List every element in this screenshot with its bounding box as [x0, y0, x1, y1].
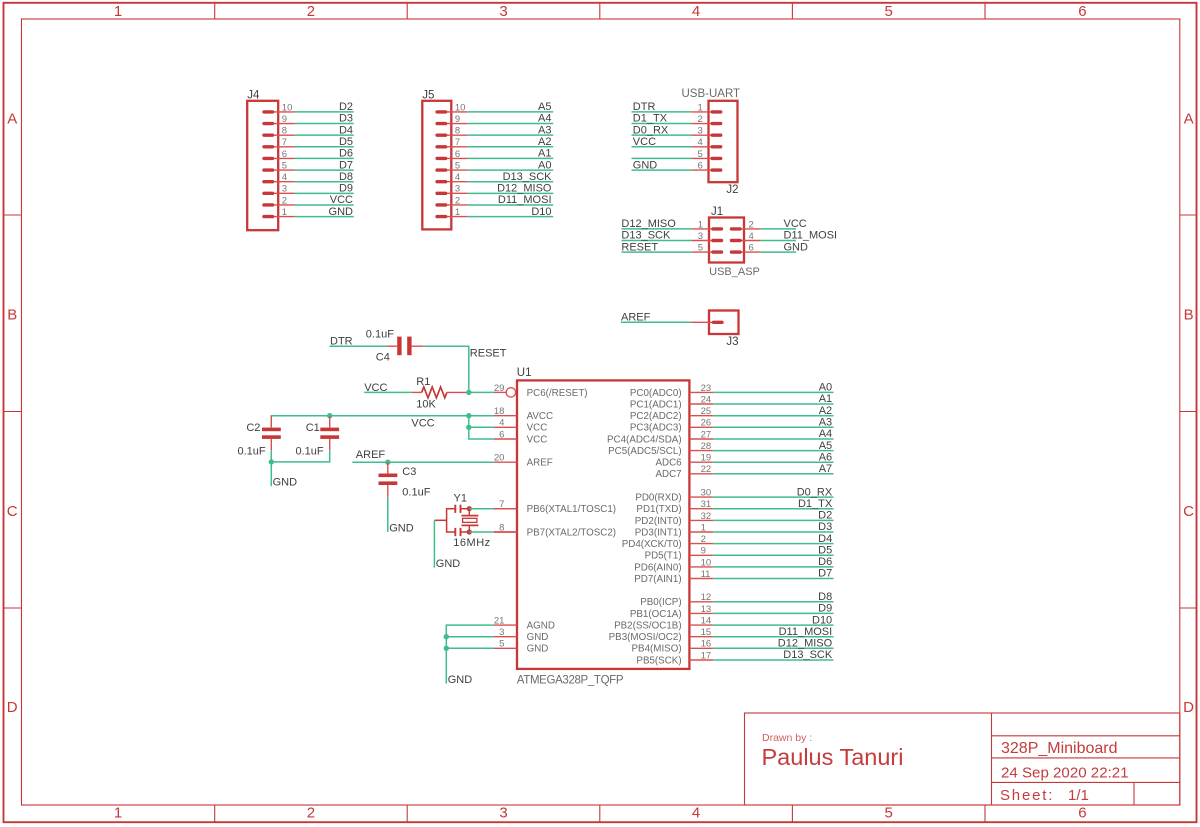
svg-text:GND: GND	[436, 558, 461, 570]
svg-text:GND: GND	[527, 632, 549, 643]
svg-text:5: 5	[499, 639, 504, 650]
wire U1 pin 10 to D6	[713, 566, 833, 568]
U1 pin 12 stub	[689, 601, 713, 603]
svg-text:1: 1	[455, 207, 460, 218]
svg-text:19: 19	[701, 453, 712, 464]
J5 pin 7 stub	[437, 146, 468, 148]
svg-text:6: 6	[1078, 805, 1086, 822]
svg-text:1/1: 1/1	[1068, 787, 1089, 804]
wire D13_SCK	[468, 181, 554, 183]
J2 pin 6 stub	[692, 169, 721, 171]
svg-text:29: 29	[494, 383, 505, 394]
svg-text:GND: GND	[784, 241, 809, 253]
svg-text:2: 2	[455, 195, 460, 206]
svg-text:Paulus Tanuri: Paulus Tanuri	[762, 744, 904, 770]
wire J1 pin 1 D12_MISO	[621, 228, 691, 230]
wire J1 pin 2 VCC	[761, 228, 797, 230]
svg-text:A2: A2	[538, 136, 551, 148]
svg-text:U1: U1	[517, 367, 532, 379]
svg-text:PB7(XTAL2/TOSC2): PB7(XTAL2/TOSC2)	[527, 527, 616, 538]
svg-text:5: 5	[282, 160, 287, 171]
svg-text:17: 17	[701, 650, 712, 661]
U1 pin 31 stub	[689, 508, 713, 510]
U1 pin 6 stub	[494, 438, 517, 440]
J4 pin 10 stub	[264, 111, 295, 113]
wire U1 pin 2 to D4	[713, 543, 833, 545]
wire U1 pin 27 to A4	[713, 438, 833, 440]
svg-text:A: A	[7, 110, 17, 127]
wire J1 pin 6 GND	[761, 251, 797, 253]
svg-text:D: D	[7, 699, 18, 716]
J4 pin 7 stub	[264, 146, 295, 148]
wire C3 to GND	[387, 497, 389, 532]
wire U1 pin 22 to A7	[713, 473, 833, 475]
title block outline	[745, 713, 1180, 805]
svg-text:2: 2	[307, 3, 315, 20]
J4 pin 8 stub	[264, 134, 295, 136]
svg-text:12: 12	[701, 592, 712, 603]
svg-text:D13_SCK: D13_SCK	[621, 230, 671, 242]
J5 pin 1 stub	[437, 216, 468, 218]
resonator Y1 crystal	[468, 509, 470, 516]
junction GND pin3	[444, 634, 449, 639]
wire A4	[468, 123, 554, 125]
svg-text:Drawn by :: Drawn by :	[762, 732, 812, 744]
capacitor C3 plates	[379, 474, 398, 478]
svg-text:A4: A4	[538, 113, 551, 125]
frame column ticks bottom	[215, 805, 985, 822]
svg-text:C: C	[7, 503, 18, 520]
svg-text:D11_MOSI: D11_MOSI	[779, 626, 833, 638]
svg-text:5: 5	[698, 149, 703, 160]
junction VCC pin4	[466, 425, 471, 430]
wire D9	[295, 192, 354, 194]
svg-text:10K: 10K	[416, 399, 436, 411]
U1 pin 7 stub	[494, 508, 517, 510]
wire U1 pin 30 to D0_RX	[713, 496, 833, 498]
J1 pin 5 stub	[692, 251, 722, 253]
svg-text:J2: J2	[726, 184, 738, 196]
U1 pin 21 stub	[494, 624, 517, 626]
svg-text:5: 5	[885, 805, 893, 822]
svg-text:J4: J4	[247, 89, 260, 101]
svg-text:D13_SCK: D13_SCK	[783, 649, 833, 661]
svg-text:R1: R1	[416, 376, 430, 388]
node XTAL1 junction	[467, 506, 472, 511]
J2 pin 4 stub	[692, 146, 721, 148]
wire U1 pin 32 to D2	[713, 519, 833, 521]
svg-text:PB4(MISO): PB4(MISO)	[632, 644, 682, 655]
svg-text:RESET: RESET	[470, 348, 507, 360]
svg-text:6: 6	[282, 149, 287, 160]
svg-text:PB0(ICP): PB0(ICP)	[640, 597, 681, 608]
U1 pin 25 stub	[689, 415, 713, 417]
U1 pin 14 stub	[689, 624, 713, 626]
svg-text:5: 5	[455, 160, 460, 171]
svg-text:31: 31	[701, 499, 712, 510]
U1 pin 23 stub	[689, 391, 713, 393]
svg-text:D0_RX: D0_RX	[797, 486, 833, 498]
svg-text:D1_TX: D1_TX	[798, 498, 833, 510]
svg-text:4: 4	[749, 231, 754, 242]
capacitor C3 top lead	[387, 462, 389, 473]
J4 pin 3 stub	[264, 192, 295, 194]
wire D8	[295, 181, 354, 183]
svg-text:2: 2	[282, 195, 287, 206]
svg-text:5: 5	[885, 3, 893, 20]
wire D12_MISO	[468, 192, 554, 194]
wire D3	[295, 123, 354, 125]
wire A1	[468, 157, 554, 159]
svg-text:0.1uF: 0.1uF	[366, 328, 394, 340]
svg-text:GND: GND	[273, 477, 298, 489]
svg-text:6: 6	[1078, 3, 1086, 20]
svg-text:9: 9	[455, 114, 460, 125]
svg-text:Sheet:: Sheet:	[1000, 787, 1054, 804]
resonator Y1 top capacitor plates	[454, 505, 456, 513]
svg-text:15: 15	[701, 627, 712, 638]
wire D2	[295, 111, 354, 113]
svg-text:PB1(OC1A): PB1(OC1A)	[630, 609, 682, 620]
J4 pin 9 stub	[264, 123, 295, 125]
svg-text:A5: A5	[819, 440, 832, 452]
svg-text:A6: A6	[819, 451, 832, 463]
J5 pin 3 stub	[437, 192, 468, 194]
J5 pin 10 stub	[437, 111, 468, 113]
J1 pin 6 stub	[732, 251, 761, 253]
svg-text:20: 20	[494, 453, 505, 464]
wire A0	[468, 169, 554, 171]
capacitor C1 bottom lead	[329, 439, 331, 450]
frame row labels	[7, 110, 1194, 716]
svg-text:DTR: DTR	[633, 101, 656, 113]
svg-text:D7: D7	[818, 568, 832, 580]
svg-text:D10: D10	[531, 206, 551, 218]
svg-text:VCC: VCC	[633, 136, 656, 148]
svg-text:PD0(RXD): PD0(RXD)	[635, 493, 681, 504]
svg-text:2: 2	[307, 805, 315, 822]
svg-text:A5: A5	[538, 101, 551, 113]
svg-text:1: 1	[698, 219, 703, 230]
J2 pin 3 stub	[692, 134, 721, 136]
capacitor C3 bottom lead	[387, 485, 389, 497]
J5 pin 4 stub	[437, 181, 468, 183]
svg-text:PD1(TXD): PD1(TXD)	[636, 504, 681, 515]
svg-text:0.1uF: 0.1uF	[402, 486, 430, 498]
svg-text:0.1uF: 0.1uF	[238, 445, 266, 457]
wire J2 pin 2	[632, 123, 692, 125]
wire VCC rail	[271, 416, 494, 427]
svg-text:D10: D10	[812, 614, 832, 626]
wire U1 pin 9 to D5	[713, 554, 833, 556]
svg-text:D2: D2	[339, 101, 353, 113]
wire J2 pin 1	[632, 111, 692, 113]
svg-text:8: 8	[455, 126, 460, 137]
connector J1 body	[709, 218, 744, 263]
svg-text:2: 2	[698, 114, 703, 125]
resonator Y1 bottom cap to node	[461, 531, 470, 533]
svg-text:AREF: AREF	[621, 312, 651, 324]
wire J1 pin 5 RESET	[621, 251, 691, 253]
J5 pin 2 stub	[437, 204, 468, 206]
svg-text:10: 10	[701, 557, 712, 568]
svg-text:7: 7	[499, 499, 504, 510]
U1 pin 7 stub	[494, 508, 517, 510]
svg-text:A4: A4	[819, 428, 832, 440]
resonator Y1 top cap to node	[461, 508, 470, 510]
svg-text:3: 3	[698, 126, 703, 137]
svg-text:B: B	[7, 307, 17, 324]
svg-text:A0: A0	[538, 159, 551, 171]
connector J2 body	[709, 101, 738, 182]
svg-text:D4: D4	[818, 533, 832, 545]
svg-text:5: 5	[698, 243, 703, 254]
J4 pin 4 stub	[264, 181, 295, 183]
svg-text:3: 3	[499, 627, 504, 638]
svg-text:4: 4	[692, 805, 700, 822]
U1 pin 1 stub	[689, 531, 713, 533]
resonator Y1 ground lead	[434, 519, 446, 521]
svg-text:VCC: VCC	[527, 423, 548, 434]
IC U1 body	[517, 380, 689, 669]
U1 pin 19 stub	[689, 461, 713, 463]
svg-text:A3: A3	[819, 417, 832, 429]
svg-text:D: D	[1183, 699, 1194, 716]
svg-text:10: 10	[282, 102, 293, 113]
J3 pin 1 stub	[691, 321, 722, 323]
wire GND pin 5	[446, 647, 494, 649]
wire VCC	[295, 204, 354, 206]
svg-text:C2: C2	[246, 422, 260, 434]
svg-text:3: 3	[499, 3, 507, 20]
resistor R1 left lead	[412, 391, 422, 393]
wire VCC to pin 4	[469, 426, 494, 428]
svg-text:GND: GND	[448, 674, 473, 686]
U1 pin 24 stub	[689, 403, 713, 405]
capacitor C2 bottom lead	[270, 439, 272, 450]
svg-text:D9: D9	[339, 183, 353, 195]
svg-text:PC3(ADC3): PC3(ADC3)	[630, 423, 682, 434]
junction ground node C2	[269, 459, 274, 464]
svg-text:PD4(XCK/T0): PD4(XCK/T0)	[622, 539, 682, 550]
U1 pin 22 stub	[689, 473, 713, 475]
svg-text:1: 1	[698, 102, 703, 113]
wire VCC drop to pins 4 and 6	[469, 416, 494, 439]
svg-text:PB2(SS/OC1B): PB2(SS/OC1B)	[614, 621, 682, 632]
svg-text:D12_MISO: D12_MISO	[778, 638, 833, 650]
svg-text:D12_MISO: D12_MISO	[497, 183, 552, 195]
svg-text:3: 3	[282, 184, 287, 195]
svg-text:7: 7	[282, 137, 287, 148]
svg-text:PD6(AIN0): PD6(AIN0)	[634, 562, 681, 573]
wire U1 pin 12 to D8	[713, 601, 833, 603]
svg-text:PC4(ADC4/SDA): PC4(ADC4/SDA)	[607, 434, 682, 445]
svg-text:D11_MOSI: D11_MOSI	[498, 194, 552, 206]
J4 pin 1 stub	[264, 216, 295, 218]
svg-text:J5: J5	[422, 89, 434, 101]
capacitor C4 plates	[397, 337, 401, 356]
svg-text:AREF: AREF	[527, 458, 553, 469]
wire AREF to J3	[621, 321, 691, 323]
svg-text:AREF: AREF	[356, 449, 386, 461]
svg-text:1: 1	[114, 805, 122, 822]
svg-text:D3: D3	[339, 113, 353, 125]
J4 pin 2 stub	[264, 204, 295, 206]
wire VCC to R1	[364, 391, 412, 393]
wire D11_MOSI	[468, 204, 554, 206]
svg-text:PD2(INT0): PD2(INT0)	[635, 516, 682, 527]
wire J2 pin 3	[632, 134, 692, 136]
J1 pin 3 stub	[692, 240, 722, 242]
svg-text:D9: D9	[818, 603, 832, 615]
wire XTAL2 to U1 pin 8	[469, 531, 494, 533]
svg-text:A3: A3	[538, 124, 551, 136]
svg-text:6: 6	[455, 149, 460, 160]
svg-text:PB6(XTAL1/TOSC1): PB6(XTAL1/TOSC1)	[527, 504, 616, 515]
svg-text:D6: D6	[818, 556, 832, 568]
svg-text:27: 27	[701, 429, 712, 440]
svg-text:6: 6	[499, 429, 504, 440]
connector J5 body	[422, 101, 451, 230]
U1 pin 29 inverted stub	[494, 391, 506, 393]
svg-text:A0: A0	[819, 382, 832, 394]
connector J3 body	[709, 311, 739, 335]
svg-text:PC6(/RESET): PC6(/RESET)	[527, 388, 588, 399]
U1 pin 3 stub	[494, 636, 517, 638]
svg-text:USB-UART: USB-UART	[682, 88, 741, 100]
svg-text:D13_SCK: D13_SCK	[503, 171, 553, 183]
junction RESET R1 node	[466, 390, 471, 395]
U1 pin 5 stub	[494, 647, 517, 649]
connector J4 body	[247, 101, 278, 230]
wire Y1 to GND	[433, 520, 435, 567]
svg-text:32: 32	[701, 511, 712, 522]
svg-text:VCC: VCC	[527, 434, 548, 445]
svg-text:30: 30	[701, 488, 712, 499]
svg-text:328P_Miniboard: 328P_Miniboard	[1001, 740, 1118, 757]
J2 pin 5 stub	[692, 157, 721, 159]
frame row ticks right	[1180, 215, 1197, 608]
svg-text:GND: GND	[527, 644, 549, 655]
capacitor C2 top lead	[270, 416, 272, 427]
svg-text:1: 1	[701, 522, 706, 533]
wire C4 to RESET corner	[423, 346, 469, 392]
svg-text:A: A	[1184, 110, 1194, 127]
svg-text:B: B	[1184, 307, 1194, 324]
svg-text:23: 23	[701, 383, 712, 394]
svg-text:D12_MISO: D12_MISO	[621, 218, 676, 230]
U1 pin 16 stub	[689, 647, 713, 649]
svg-text:D5: D5	[818, 545, 832, 557]
svg-text:C1: C1	[306, 422, 320, 434]
wire AREF to U1 pin 20	[352, 461, 494, 463]
svg-text:24 Sep 2020 22:21: 24 Sep 2020 22:21	[1001, 764, 1129, 781]
svg-text:D6: D6	[339, 148, 353, 160]
svg-text:J3: J3	[726, 336, 738, 348]
svg-text:4: 4	[692, 3, 700, 20]
capacitor C4 left lead	[387, 345, 397, 347]
capacitor C1 top lead	[329, 416, 331, 427]
svg-text:PB5(SCK): PB5(SCK)	[636, 655, 681, 666]
U1 pin 27 stub	[689, 438, 713, 440]
wire U1 pin 23 to A0	[713, 391, 833, 393]
svg-text:16MHz: 16MHz	[453, 537, 490, 549]
svg-text:USB_ASP: USB_ASP	[709, 266, 760, 278]
U1 pin 28 stub	[689, 450, 713, 452]
U1 pin 20 stub	[494, 461, 517, 463]
svg-text:PD5(T1): PD5(T1)	[645, 551, 682, 562]
wire J1 pin 3 D13_SCK	[621, 240, 691, 242]
U1 pin 13 stub	[689, 612, 713, 614]
capacitor C1 plates	[320, 428, 339, 432]
svg-text:21: 21	[494, 616, 505, 627]
svg-text:0.1uF: 0.1uF	[296, 445, 324, 457]
svg-text:14: 14	[701, 616, 712, 627]
svg-text:PC1(ADC1): PC1(ADC1)	[630, 399, 682, 410]
svg-text:PD7(AIN1): PD7(AIN1)	[634, 574, 681, 585]
svg-text:VCC: VCC	[330, 194, 353, 206]
svg-text:11: 11	[701, 569, 711, 580]
svg-text:A7: A7	[819, 463, 832, 475]
frame row ticks left	[4, 215, 22, 608]
U1 pin 4 stub	[494, 426, 517, 428]
U1 pin 9 stub	[689, 554, 713, 556]
svg-text:22: 22	[701, 464, 712, 475]
svg-text:A1: A1	[538, 148, 551, 160]
junction VCC rail U1	[466, 413, 471, 418]
svg-text:PC0(ADC0): PC0(ADC0)	[630, 388, 682, 399]
U1 pin 2 stub	[689, 543, 713, 545]
J1 pin 1 stub	[692, 228, 722, 230]
U1 pin 30 stub	[689, 496, 713, 498]
wire C1 to ground node	[271, 450, 329, 462]
J1 pin 4 stub	[732, 240, 761, 242]
junction AREF C3	[385, 460, 390, 465]
svg-text:C4: C4	[376, 352, 390, 364]
svg-text:26: 26	[701, 418, 712, 429]
svg-text:7: 7	[455, 137, 460, 148]
J4 pin 6 stub	[264, 157, 295, 159]
wire D5	[295, 146, 354, 148]
U1 pin 26 stub	[689, 426, 713, 428]
svg-text:25: 25	[701, 406, 712, 417]
wire XTAL1 to U1 pin 7	[469, 508, 494, 510]
node XTAL2 junction	[467, 529, 472, 534]
svg-text:2: 2	[749, 219, 754, 230]
wire GND	[295, 216, 354, 218]
resonator Y1 bottom capacitor plates	[454, 528, 456, 536]
wire U1 pin 19 to A6	[713, 461, 833, 463]
U1 pin 11 stub	[689, 578, 713, 580]
svg-text:VCC: VCC	[411, 417, 434, 429]
U1 pin 18 stub	[494, 415, 517, 417]
J5 pin 8 stub	[437, 134, 468, 136]
svg-text:16: 16	[701, 639, 712, 650]
svg-text:VCC: VCC	[784, 218, 807, 230]
svg-text:9: 9	[282, 114, 287, 125]
svg-text:D7: D7	[339, 159, 353, 171]
wire A3	[468, 134, 554, 136]
wire U1 pin 14 to D10	[713, 624, 833, 626]
svg-text:3: 3	[455, 184, 460, 195]
svg-text:A2: A2	[819, 405, 832, 417]
svg-text:D11_MOSI: D11_MOSI	[784, 230, 838, 242]
svg-text:AVCC: AVCC	[527, 411, 554, 422]
svg-text:D2: D2	[818, 510, 832, 522]
svg-text:9: 9	[701, 546, 706, 557]
svg-text:4: 4	[282, 172, 287, 183]
svg-text:D0_RX: D0_RX	[633, 124, 669, 136]
